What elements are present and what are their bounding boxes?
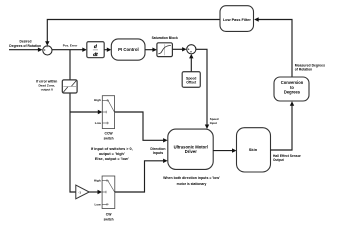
svg-text:Offset: Offset (186, 81, 197, 85)
block: Low Pass Filter (220, 6, 254, 32)
svg-text:Skin: Skin (249, 147, 258, 152)
arrowhead into S1 top (45, 41, 49, 46)
svg-text:High: High (94, 98, 101, 102)
svg-text:Desired: Desired (20, 39, 32, 43)
block: saturation (157, 43, 173, 57)
wire: CW switch output to motor direction input (lower) (115, 161, 164, 192)
svg-text:Output: Output (273, 158, 285, 162)
block: dead zone (62, 80, 77, 93)
wire: Conversion to Degrees output up and left into Low Pass Filter (259, 20, 293, 78)
wire: inverter output into CW switch pole (89, 191, 98, 193)
wire: motor to skin (213, 150, 232, 152)
svg-text:When both direction inputs = ': When both direction inputs = 'low' (163, 176, 220, 180)
svg-text:PI Control: PI Control (118, 47, 139, 52)
summing junction S1 (43, 46, 52, 55)
svg-text:switch: switch (104, 218, 114, 222)
wire: feedback from Low Pass Filter output to summing junction S1 (47, 20, 220, 42)
block: PI Control (111, 39, 145, 60)
svg-text:Driver: Driver (185, 149, 197, 154)
wire: skin output right then up into Conversion to Degrees (271, 106, 293, 151)
wire: S2 output right then down into motor speed input (196, 49, 207, 124)
block: Speed Offset (182, 72, 200, 88)
svg-text:High: High (94, 179, 101, 183)
svg-text:output 0: output 0 (41, 87, 53, 91)
svg-text:of Rotation: of Rotation (295, 67, 312, 71)
block: Conversion to Degrees (274, 77, 309, 101)
wire: desired input arrow into S1 (9, 49, 38, 51)
svg-text:Low Pass Filter: Low Pass Filter (223, 18, 251, 22)
block: CCW switch (102, 96, 114, 129)
sign + at S2 bottom (190, 51, 192, 53)
svg-text:CCW: CCW (105, 131, 114, 135)
sign - at S1 top (46, 46, 48, 48)
wire: trunk down from Pos. Error node through dead zone to inverter (70, 50, 76, 192)
wire: saturation to summing junction S2 (172, 48, 182, 50)
wire: branch from trunk into CCW switch pole (70, 111, 98, 113)
summing junction S2 (187, 45, 196, 54)
svg-text:CW: CW (106, 212, 112, 216)
svg-text:switch: switch (104, 137, 114, 141)
block: CW switch (102, 176, 115, 209)
svg-text:Else, output = 'low': Else, output = 'low' (95, 157, 129, 161)
wire: CCW switch output to motor direction input (upper) (115, 112, 164, 140)
svg-text:output = 'high': output = 'high' (99, 152, 125, 156)
block: Skin (237, 128, 271, 172)
svg-text:Degrees of Rotation: Degrees of Rotation (9, 44, 41, 48)
wire: PI Control to Saturation Block (145, 49, 153, 51)
svg-text:Low: Low (95, 203, 102, 207)
arrowhead into LPF right side (254, 17, 259, 21)
svg-text:Input: Input (210, 121, 217, 125)
sign + at S1 left (44, 49, 46, 51)
svg-text:If input of switches > 0,: If input of switches > 0, (91, 147, 133, 151)
inverter gain -1 (76, 185, 89, 199)
svg-text:Pos. Error: Pos. Error (63, 43, 78, 47)
svg-text:-1: -1 (78, 190, 81, 194)
sign + at S2 left (188, 48, 190, 50)
wire: S1 to d/dt block (52, 49, 83, 51)
wire: Speed Offset up into S2 (190, 58, 192, 71)
svg-text:Inputs: Inputs (153, 151, 164, 155)
svg-text:dt: dt (93, 52, 98, 58)
svg-text:Saturation Block: Saturation Block (152, 36, 178, 40)
block: Ultrasonic Motor/Driver (168, 129, 213, 169)
block: derivative d/dt (87, 42, 104, 59)
svg-text:Low: Low (95, 121, 102, 125)
svg-text:Degrees: Degrees (284, 90, 301, 95)
wire: d/dt to PI Control (104, 49, 107, 51)
svg-text:motor is stationary: motor is stationary (177, 182, 207, 186)
